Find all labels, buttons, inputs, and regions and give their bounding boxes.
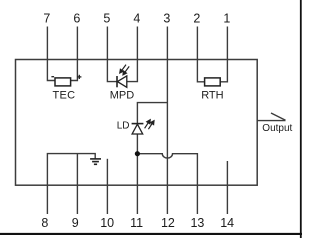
svg-text:LD: LD	[117, 121, 130, 132]
svg-text:12: 12	[161, 216, 175, 230]
svg-text:3: 3	[163, 12, 170, 26]
svg-text:14: 14	[220, 216, 234, 230]
svg-text:13: 13	[190, 216, 204, 230]
svg-text:9: 9	[72, 216, 79, 230]
svg-text:11: 11	[130, 216, 143, 230]
svg-text:6: 6	[73, 12, 80, 26]
svg-text:RTH: RTH	[201, 90, 223, 102]
svg-text:4: 4	[133, 12, 140, 26]
svg-text:5: 5	[103, 12, 110, 26]
svg-text:7: 7	[43, 12, 50, 26]
svg-text:2: 2	[193, 12, 200, 26]
svg-text:8: 8	[41, 216, 48, 230]
svg-text:10: 10	[100, 216, 114, 230]
svg-text:1: 1	[223, 12, 230, 26]
svg-text:TEC: TEC	[52, 90, 75, 102]
svg-text:Output: Output	[262, 123, 292, 134]
svg-text:MPD: MPD	[110, 90, 135, 102]
